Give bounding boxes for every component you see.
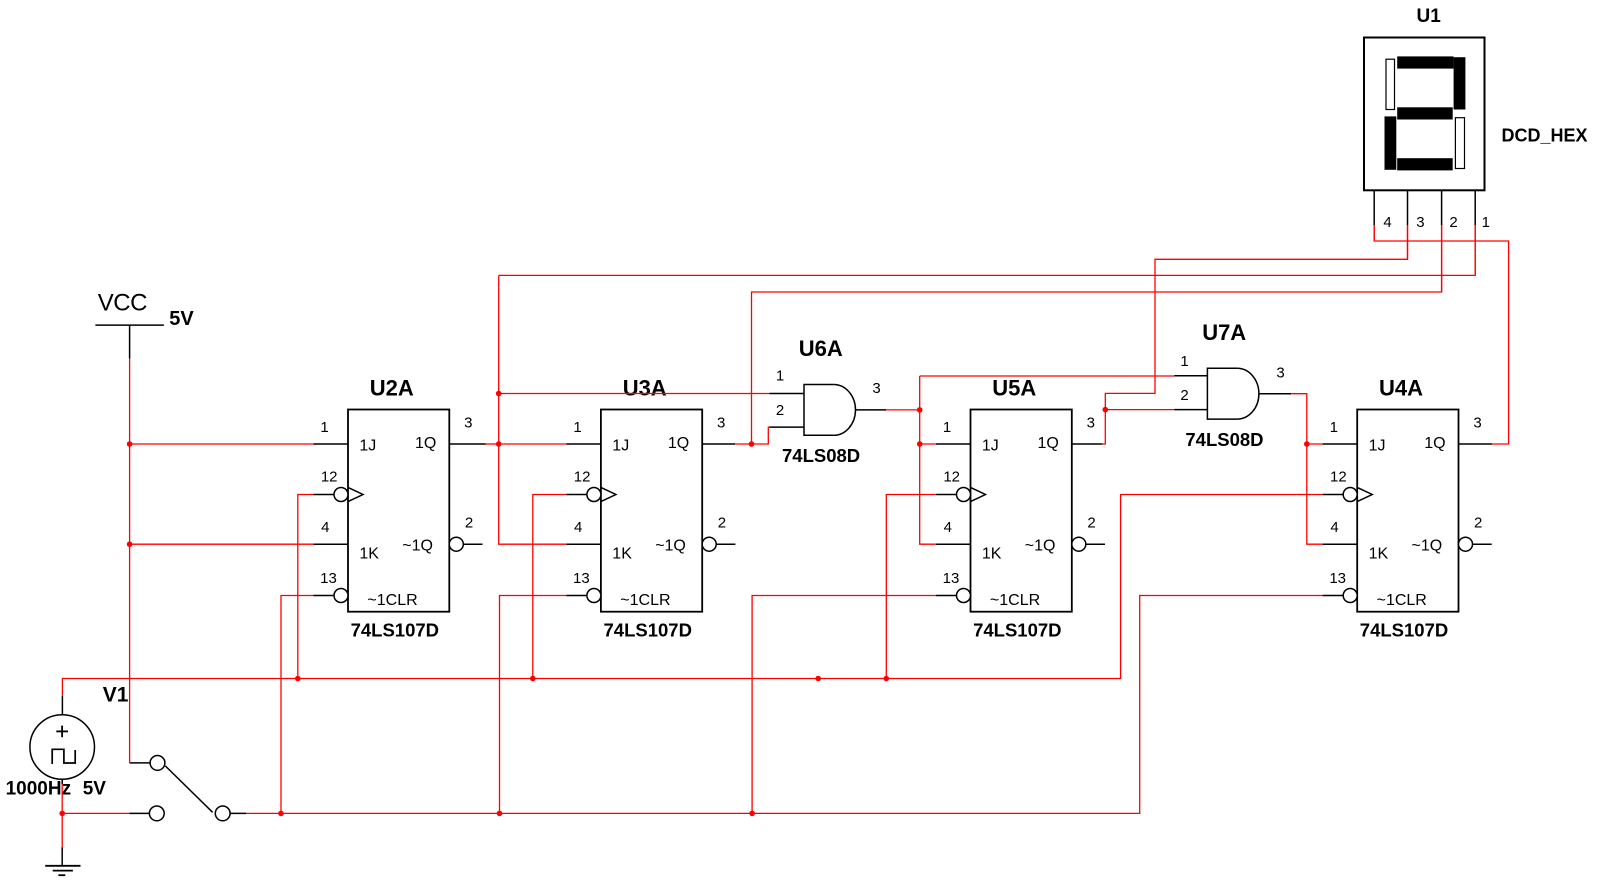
svg-text:74LS107D: 74LS107D (1360, 620, 1448, 641)
svg-text:74LS107D: 74LS107D (973, 620, 1061, 641)
svg-text:1J: 1J (359, 438, 376, 455)
svg-text:3: 3 (464, 415, 472, 432)
svg-text:U1: U1 (1417, 6, 1442, 27)
svg-text:1K: 1K (982, 546, 1002, 563)
svg-text:2: 2 (718, 515, 726, 532)
svg-text:U5A: U5A (992, 376, 1036, 401)
svg-text:12: 12 (321, 469, 338, 486)
svg-text:~1CLR: ~1CLR (620, 592, 670, 609)
svg-text:13: 13 (320, 570, 337, 587)
svg-text:3: 3 (717, 415, 725, 432)
svg-text:2: 2 (465, 515, 473, 532)
svg-text:4: 4 (944, 519, 952, 536)
svg-text:3: 3 (1416, 214, 1424, 231)
svg-text:~1Q: ~1Q (655, 538, 686, 555)
svg-text:1: 1 (943, 419, 951, 436)
svg-text:74LS107D: 74LS107D (604, 620, 692, 641)
svg-text:U6A: U6A (799, 336, 843, 361)
svg-text:3: 3 (1087, 415, 1095, 432)
svg-text:DCD_HEX: DCD_HEX (1502, 126, 1588, 146)
svg-text:12: 12 (1330, 469, 1347, 486)
svg-text:1K: 1K (612, 546, 632, 563)
svg-text:1K: 1K (1369, 546, 1389, 563)
svg-text:74LS08D: 74LS08D (1185, 429, 1263, 450)
svg-text:3: 3 (872, 380, 880, 397)
svg-text:1J: 1J (1369, 438, 1386, 455)
svg-text:V1: V1 (103, 684, 129, 707)
svg-text:3: 3 (1473, 415, 1481, 432)
svg-text:1: 1 (1180, 353, 1188, 370)
svg-text:2: 2 (1180, 387, 1188, 404)
svg-text:1: 1 (573, 419, 581, 436)
svg-text:1: 1 (1330, 419, 1338, 436)
svg-text:5V: 5V (169, 308, 194, 330)
svg-text:1Q: 1Q (1424, 435, 1445, 452)
svg-text:U3A: U3A (623, 376, 667, 401)
svg-text:1J: 1J (612, 438, 629, 455)
svg-text:U2A: U2A (370, 376, 414, 401)
svg-text:U4A: U4A (1379, 376, 1423, 401)
svg-text:13: 13 (1329, 570, 1346, 587)
svg-text:4: 4 (321, 519, 329, 536)
svg-text:U7A: U7A (1202, 320, 1246, 345)
svg-text:1J: 1J (982, 438, 999, 455)
svg-text:12: 12 (574, 469, 591, 486)
svg-text:3: 3 (1276, 365, 1284, 382)
svg-text:5V: 5V (83, 779, 107, 800)
svg-text:4: 4 (1330, 519, 1338, 536)
svg-text:13: 13 (943, 570, 960, 587)
svg-text:~1Q: ~1Q (1412, 538, 1443, 555)
svg-text:~1Q: ~1Q (402, 538, 433, 555)
svg-text:4: 4 (574, 519, 582, 536)
svg-text:VCC: VCC (98, 290, 147, 317)
svg-text:4: 4 (1383, 214, 1391, 231)
svg-text:1K: 1K (359, 546, 379, 563)
svg-text:2: 2 (1087, 515, 1095, 532)
svg-text:~1CLR: ~1CLR (990, 592, 1040, 609)
svg-text:2: 2 (1474, 515, 1482, 532)
svg-text:74LS107D: 74LS107D (351, 620, 439, 641)
svg-text:74LS08D: 74LS08D (782, 445, 860, 466)
svg-text:12: 12 (943, 469, 960, 486)
svg-text:13: 13 (573, 570, 590, 587)
svg-text:1Q: 1Q (668, 435, 689, 452)
svg-text:2: 2 (1449, 214, 1457, 231)
svg-text:2: 2 (776, 402, 784, 419)
svg-text:~1Q: ~1Q (1025, 538, 1056, 555)
svg-text:1Q: 1Q (415, 435, 436, 452)
svg-text:~1CLR: ~1CLR (1377, 592, 1427, 609)
svg-text:~1CLR: ~1CLR (367, 592, 417, 609)
svg-text:1Q: 1Q (1038, 435, 1059, 452)
svg-text:1000Hz: 1000Hz (6, 779, 72, 800)
svg-text:1: 1 (1482, 214, 1490, 231)
svg-text:1: 1 (776, 368, 784, 385)
svg-text:1: 1 (320, 419, 328, 436)
